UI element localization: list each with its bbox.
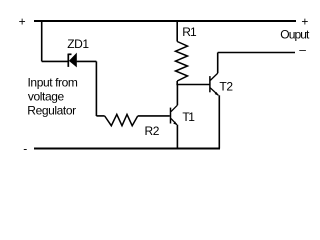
wire top rail [34,20,296,22]
svg-text:voltage: voltage [28,90,65,104]
wire T2 emitter vertical [218,95,220,148]
text Input from voltage Regulator [27,76,78,118]
transistor T2 [210,73,219,96]
svg-text:–: – [299,43,306,57]
svg-text:+: + [19,14,26,28]
svg-text:R2: R2 [145,124,160,138]
svg-text:+: + [301,15,308,29]
svg-text:T2: T2 [219,80,233,94]
svg-text:Input from: Input from [28,76,78,90]
wire ZD1 drop from top rail [41,21,43,61]
svg-text:ZD1: ZD1 [67,37,89,51]
wire T1 collector vertical [176,85,178,106]
svg-text:R1: R1 [182,25,197,39]
transistor T1 [171,105,178,125]
wire T1 emitter vertical [176,125,178,149]
wire bottom rail [34,148,220,150]
wire node junction R1 / T1 collector / T2 base [176,84,210,86]
svg-text:-: - [23,142,27,156]
svg-text:Ouput: Ouput [280,28,310,42]
wire output negative rail (T2 collector to right) [218,52,295,54]
wire ZD1 right drop to R2 [95,61,97,116]
zener diode ZD1 [42,53,97,68]
wire T2 collector vertical [217,53,219,74]
resistor R1 [176,21,188,85]
svg-text:T1: T1 [182,110,195,124]
resistor R2 [96,114,169,125]
svg-text:Regulator: Regulator [27,104,76,118]
